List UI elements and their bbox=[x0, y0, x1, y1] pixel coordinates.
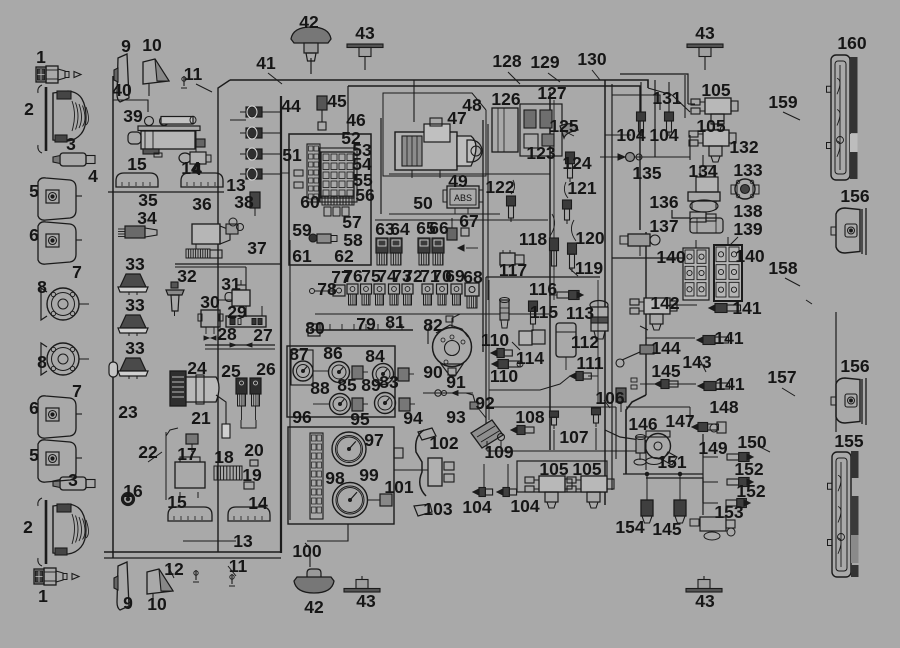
svg-text:37: 37 bbox=[247, 238, 266, 258]
svg-text:42: 42 bbox=[304, 597, 324, 617]
svg-text:147: 147 bbox=[665, 411, 694, 431]
svg-text:60: 60 bbox=[300, 192, 320, 212]
svg-text:32: 32 bbox=[177, 266, 197, 286]
svg-text:3: 3 bbox=[68, 470, 78, 490]
svg-text:111: 111 bbox=[576, 353, 604, 373]
svg-text:51: 51 bbox=[282, 145, 302, 165]
svg-text:90: 90 bbox=[423, 362, 443, 382]
svg-text:95: 95 bbox=[350, 409, 370, 429]
svg-text:157: 157 bbox=[767, 367, 796, 387]
svg-text:2: 2 bbox=[24, 99, 34, 119]
svg-text:30: 30 bbox=[200, 292, 220, 312]
svg-text:143: 143 bbox=[682, 352, 711, 372]
svg-text:120: 120 bbox=[575, 228, 604, 248]
svg-text:133: 133 bbox=[733, 160, 762, 180]
svg-text:153: 153 bbox=[714, 502, 743, 522]
svg-text:ABS: ABS bbox=[454, 193, 472, 203]
svg-text:44: 44 bbox=[281, 96, 301, 116]
svg-text:109: 109 bbox=[484, 442, 513, 462]
svg-text:64: 64 bbox=[390, 219, 410, 239]
svg-text:106: 106 bbox=[595, 388, 624, 408]
svg-text:78: 78 bbox=[317, 279, 337, 299]
svg-text:93: 93 bbox=[446, 407, 466, 427]
svg-text:103: 103 bbox=[423, 499, 452, 519]
svg-text:68: 68 bbox=[463, 267, 483, 287]
svg-text:110: 110 bbox=[481, 330, 509, 350]
svg-text:4: 4 bbox=[192, 159, 202, 179]
svg-text:152: 152 bbox=[736, 481, 765, 501]
svg-text:89: 89 bbox=[361, 375, 381, 395]
svg-text:80: 80 bbox=[305, 318, 325, 338]
svg-text:43: 43 bbox=[695, 23, 715, 43]
svg-text:86: 86 bbox=[323, 343, 343, 363]
svg-text:91: 91 bbox=[446, 372, 466, 392]
svg-text:124: 124 bbox=[562, 153, 591, 173]
svg-text:15: 15 bbox=[167, 492, 187, 512]
svg-text:110: 110 bbox=[490, 366, 518, 386]
svg-text:61: 61 bbox=[292, 246, 312, 266]
svg-text:84: 84 bbox=[365, 346, 385, 366]
svg-text:5: 5 bbox=[29, 181, 39, 201]
svg-text:31: 31 bbox=[221, 274, 241, 294]
svg-text:6: 6 bbox=[29, 398, 39, 418]
svg-text:136: 136 bbox=[649, 192, 678, 212]
svg-text:22: 22 bbox=[138, 442, 158, 462]
svg-text:141: 141 bbox=[715, 374, 744, 394]
svg-text:9: 9 bbox=[123, 593, 133, 613]
svg-text:148: 148 bbox=[709, 397, 738, 417]
svg-text:140: 140 bbox=[656, 247, 685, 267]
svg-text:131: 131 bbox=[652, 88, 681, 108]
svg-text:23: 23 bbox=[118, 402, 138, 422]
svg-text:5: 5 bbox=[29, 445, 39, 465]
svg-text:83: 83 bbox=[379, 372, 399, 392]
svg-text:10: 10 bbox=[142, 35, 162, 55]
svg-text:14: 14 bbox=[248, 493, 268, 513]
svg-text:27: 27 bbox=[253, 325, 272, 345]
svg-text:132: 132 bbox=[729, 137, 758, 157]
svg-text:134: 134 bbox=[688, 161, 717, 181]
svg-text:113: 113 bbox=[566, 303, 594, 323]
svg-text:9: 9 bbox=[121, 36, 131, 56]
svg-text:6: 6 bbox=[29, 225, 39, 245]
svg-text:125: 125 bbox=[549, 116, 578, 136]
svg-text:141: 141 bbox=[732, 298, 761, 318]
svg-text:127: 127 bbox=[537, 83, 566, 103]
svg-text:105: 105 bbox=[696, 116, 725, 136]
svg-text:102: 102 bbox=[429, 433, 458, 453]
svg-text:42: 42 bbox=[299, 12, 319, 32]
svg-text:8: 8 bbox=[37, 277, 47, 297]
svg-text:99: 99 bbox=[359, 465, 379, 485]
svg-text:145: 145 bbox=[651, 361, 680, 381]
svg-text:115: 115 bbox=[530, 302, 558, 322]
svg-text:105: 105 bbox=[539, 459, 568, 479]
svg-text:13: 13 bbox=[233, 531, 253, 551]
svg-text:11: 11 bbox=[229, 556, 248, 576]
svg-text:140: 140 bbox=[735, 246, 764, 266]
svg-text:150: 150 bbox=[737, 432, 766, 452]
svg-text:135: 135 bbox=[632, 163, 661, 183]
svg-text:100: 100 bbox=[292, 541, 321, 561]
svg-text:87: 87 bbox=[289, 344, 308, 364]
svg-text:20: 20 bbox=[244, 440, 264, 460]
svg-text:104: 104 bbox=[510, 496, 539, 516]
svg-text:114: 114 bbox=[516, 348, 544, 368]
svg-text:43: 43 bbox=[695, 591, 715, 611]
svg-text:43: 43 bbox=[356, 591, 376, 611]
svg-text:7: 7 bbox=[72, 381, 82, 401]
svg-text:39: 39 bbox=[123, 106, 143, 126]
svg-text:82: 82 bbox=[423, 315, 443, 335]
svg-text:2: 2 bbox=[23, 517, 33, 537]
svg-text:108: 108 bbox=[515, 407, 544, 427]
svg-text:10: 10 bbox=[147, 594, 167, 614]
svg-text:116: 116 bbox=[529, 279, 557, 299]
svg-text:94: 94 bbox=[403, 408, 423, 428]
svg-text:43: 43 bbox=[355, 23, 375, 43]
svg-text:12: 12 bbox=[164, 559, 184, 579]
svg-text:29: 29 bbox=[227, 302, 247, 322]
svg-text:155: 155 bbox=[834, 431, 863, 451]
svg-text:112: 112 bbox=[571, 332, 599, 352]
svg-text:104: 104 bbox=[462, 497, 491, 517]
svg-text:98: 98 bbox=[325, 468, 345, 488]
svg-text:141: 141 bbox=[714, 328, 743, 348]
svg-text:154: 154 bbox=[615, 517, 644, 537]
svg-text:121: 121 bbox=[567, 178, 596, 198]
svg-text:49: 49 bbox=[448, 171, 468, 191]
svg-text:105: 105 bbox=[701, 80, 730, 100]
svg-text:152: 152 bbox=[734, 459, 763, 479]
svg-text:33: 33 bbox=[125, 338, 145, 358]
svg-text:156: 156 bbox=[840, 186, 869, 206]
svg-text:59: 59 bbox=[292, 220, 312, 240]
svg-text:107: 107 bbox=[559, 427, 588, 447]
svg-text:38: 38 bbox=[234, 192, 254, 212]
svg-text:67: 67 bbox=[459, 211, 478, 231]
svg-text:21: 21 bbox=[191, 408, 211, 428]
svg-text:17: 17 bbox=[177, 444, 196, 464]
svg-text:146: 146 bbox=[628, 414, 657, 434]
svg-text:18: 18 bbox=[214, 447, 234, 467]
svg-text:34: 34 bbox=[137, 208, 157, 228]
svg-text:104: 104 bbox=[616, 125, 645, 145]
svg-text:85: 85 bbox=[337, 375, 357, 395]
svg-text:160: 160 bbox=[837, 33, 866, 53]
svg-text:119: 119 bbox=[575, 258, 603, 278]
svg-text:26: 26 bbox=[256, 359, 276, 379]
svg-text:126: 126 bbox=[491, 89, 520, 109]
svg-text:104: 104 bbox=[649, 125, 678, 145]
svg-text:69: 69 bbox=[445, 266, 465, 286]
svg-text:8: 8 bbox=[37, 352, 47, 372]
svg-text:142: 142 bbox=[650, 293, 679, 313]
svg-text:159: 159 bbox=[768, 92, 797, 112]
svg-text:7: 7 bbox=[72, 262, 82, 282]
svg-text:66: 66 bbox=[429, 218, 449, 238]
svg-text:81: 81 bbox=[385, 312, 405, 332]
svg-text:46: 46 bbox=[346, 110, 366, 130]
svg-text:62: 62 bbox=[334, 246, 354, 266]
svg-text:105: 105 bbox=[572, 459, 601, 479]
svg-text:25: 25 bbox=[221, 361, 241, 381]
svg-text:57: 57 bbox=[342, 212, 361, 232]
svg-text:36: 36 bbox=[192, 194, 212, 214]
svg-text:128: 128 bbox=[492, 51, 521, 71]
svg-text:144: 144 bbox=[651, 338, 680, 358]
svg-text:122: 122 bbox=[485, 177, 514, 197]
svg-text:145: 145 bbox=[652, 519, 681, 539]
svg-text:3: 3 bbox=[66, 134, 76, 154]
svg-text:35: 35 bbox=[138, 190, 158, 210]
svg-text:118: 118 bbox=[519, 229, 547, 249]
svg-text:41: 41 bbox=[256, 53, 276, 73]
svg-text:1: 1 bbox=[36, 47, 46, 67]
svg-text:48: 48 bbox=[462, 95, 482, 115]
svg-text:139: 139 bbox=[733, 219, 762, 239]
svg-text:15: 15 bbox=[127, 154, 147, 174]
svg-text:1: 1 bbox=[38, 586, 48, 606]
svg-text:4: 4 bbox=[88, 166, 98, 186]
svg-text:130: 130 bbox=[577, 49, 606, 69]
svg-text:11: 11 bbox=[184, 64, 203, 84]
svg-text:33: 33 bbox=[125, 254, 145, 274]
svg-text:117: 117 bbox=[499, 260, 527, 280]
svg-text:92: 92 bbox=[475, 393, 495, 413]
svg-text:129: 129 bbox=[530, 52, 559, 72]
svg-text:97: 97 bbox=[364, 430, 383, 450]
svg-text:79: 79 bbox=[356, 314, 376, 334]
svg-text:149: 149 bbox=[698, 438, 727, 458]
svg-text:19: 19 bbox=[242, 465, 262, 485]
svg-text:151: 151 bbox=[657, 452, 686, 472]
svg-text:96: 96 bbox=[292, 407, 312, 427]
svg-text:101: 101 bbox=[384, 477, 413, 497]
svg-text:45: 45 bbox=[327, 91, 347, 111]
svg-text:123: 123 bbox=[526, 143, 555, 163]
svg-text:156: 156 bbox=[840, 356, 869, 376]
svg-text:24: 24 bbox=[187, 358, 207, 378]
svg-text:88: 88 bbox=[310, 378, 330, 398]
svg-text:16: 16 bbox=[123, 481, 143, 501]
svg-text:76: 76 bbox=[343, 266, 363, 286]
svg-text:33: 33 bbox=[125, 295, 145, 315]
svg-text:50: 50 bbox=[413, 193, 433, 213]
svg-text:158: 158 bbox=[768, 258, 797, 278]
svg-text:40: 40 bbox=[112, 80, 132, 100]
svg-text:138: 138 bbox=[733, 201, 762, 221]
svg-text:137: 137 bbox=[649, 216, 678, 236]
svg-text:56: 56 bbox=[355, 185, 375, 205]
svg-text:28: 28 bbox=[217, 324, 237, 344]
